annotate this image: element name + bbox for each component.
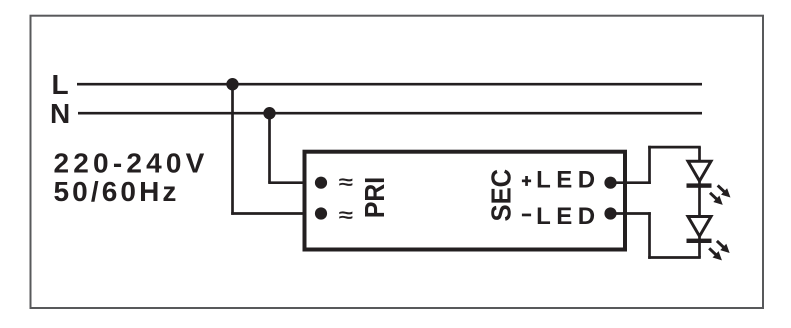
LED D2 cathode bar [687,239,712,243]
LED driver box U1 [305,152,626,250]
node N junction [263,107,275,119]
terminal PRI lower (dot) [315,207,327,219]
wire N line [78,112,702,115]
svg-text:≈: ≈ [339,203,354,225]
wire LED loop top [648,146,701,149]
label + of +LED [522,180,531,183]
wire N drop [268,113,271,183]
LED D2 triangle [688,217,711,237]
terminal PRI upper (dot) [315,177,327,189]
wire L line [77,83,702,86]
svg-text:LED: LED [536,203,601,230]
wire LED loop left lower [648,212,651,259]
svg-text:220-240V: 220-240V [54,148,209,179]
LED D1 light arrow 2 [707,190,726,209]
label minus of -LED [522,214,531,217]
LED D1 triangle [688,161,711,181]
LED D1 light arrow 1 [715,182,734,201]
wire SEC minus out [611,212,651,215]
svg-text:≈: ≈ [339,171,354,193]
svg-text:L: L [52,69,69,100]
LED D1 cathode bar [687,183,712,187]
wire L drop to PRI lower terminal [231,212,321,215]
svg-text:LED: LED [536,166,601,193]
wire LED loop bottom [648,256,701,259]
terminal SEC plus (dot) [604,177,616,189]
svg-text:N: N [50,98,70,129]
wire LED string vertical [698,147,701,257]
svg-text:50/60Hz: 50/60Hz [54,176,180,207]
LED D2 light arrow 1 [714,238,733,257]
LED D2 light arrow 2 [706,245,725,264]
node L junction [226,78,238,90]
wire N drop to PRI upper terminal [268,181,321,184]
wire L drop [231,84,234,215]
svg-text:PRI: PRI [358,177,390,218]
wire LED loop left upper [648,146,651,184]
svg-text:SEC: SEC [486,169,517,222]
wire SEC plus out [611,181,651,184]
terminal SEC minus (dot) [604,207,616,219]
